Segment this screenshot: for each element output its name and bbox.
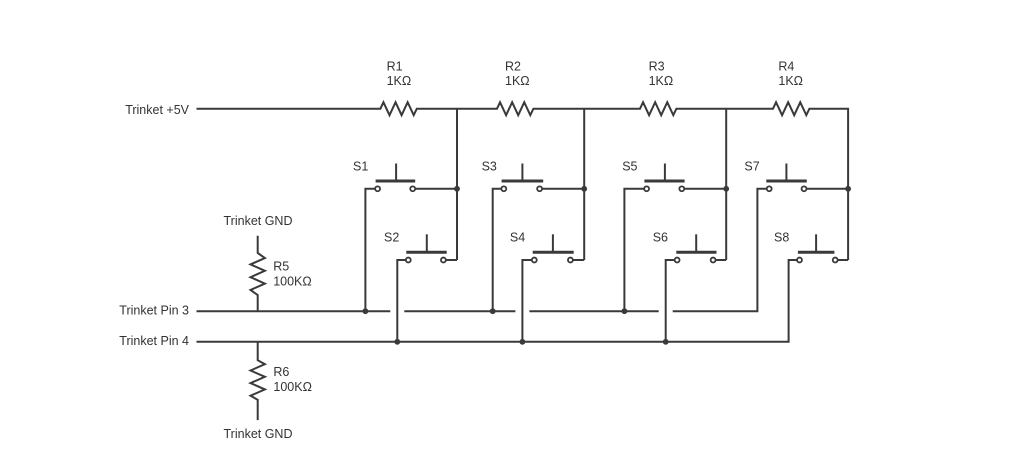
svg-text:R5: R5 bbox=[273, 259, 289, 273]
svg-text:1KΩ: 1KΩ bbox=[778, 74, 803, 88]
svg-text:S6: S6 bbox=[653, 231, 668, 245]
svg-text:S4: S4 bbox=[510, 231, 525, 245]
svg-text:S2: S2 bbox=[384, 231, 399, 245]
svg-text:R3: R3 bbox=[649, 59, 665, 73]
svg-text:100KΩ: 100KΩ bbox=[273, 380, 312, 394]
svg-text:100KΩ: 100KΩ bbox=[273, 275, 312, 289]
svg-text:Trinket +5V: Trinket +5V bbox=[125, 103, 189, 117]
svg-text:Trinket GND: Trinket GND bbox=[224, 427, 293, 441]
svg-text:1KΩ: 1KΩ bbox=[505, 74, 530, 88]
svg-text:Trinket Pin 3: Trinket Pin 3 bbox=[119, 303, 189, 317]
svg-text:S1: S1 bbox=[353, 159, 368, 173]
svg-text:R1: R1 bbox=[387, 59, 403, 73]
svg-text:R6: R6 bbox=[273, 365, 289, 379]
svg-text:R4: R4 bbox=[778, 59, 794, 73]
svg-text:S3: S3 bbox=[482, 159, 497, 173]
svg-text:R2: R2 bbox=[505, 59, 521, 73]
svg-text:Trinket GND: Trinket GND bbox=[224, 214, 293, 228]
svg-text:S8: S8 bbox=[774, 231, 789, 245]
svg-text:Trinket Pin 4: Trinket Pin 4 bbox=[119, 334, 189, 348]
svg-text:S7: S7 bbox=[744, 159, 759, 173]
svg-text:1KΩ: 1KΩ bbox=[649, 74, 674, 88]
svg-text:S5: S5 bbox=[622, 159, 637, 173]
svg-text:1KΩ: 1KΩ bbox=[387, 74, 412, 88]
